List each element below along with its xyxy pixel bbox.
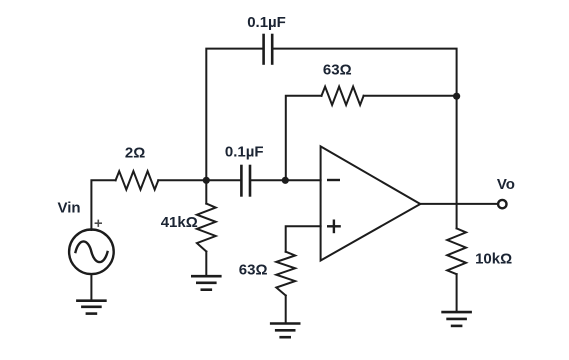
node junction dot feedback/output xyxy=(453,93,460,100)
op-amp triangle xyxy=(321,146,421,260)
wire top feedback loop (left vertical + horizontals to top cap) xyxy=(206,49,262,181)
terminal Vo (open circle) xyxy=(498,200,506,208)
resistor 2ohm zigzag xyxy=(116,171,159,189)
wire op-amp output to Vo terminal xyxy=(420,203,497,205)
op-amp plus input symbol xyxy=(328,221,339,232)
source Vin (AC sine source circle) xyxy=(69,230,114,275)
svg-text:0.1µF: 0.1µF xyxy=(225,144,264,161)
wire top right horizontal + right vertical down to 10k resistor xyxy=(273,49,456,229)
resistor 10kohm vertical xyxy=(447,228,466,274)
wire non-inverting input to 63ohm resistor xyxy=(286,226,321,251)
node junction dot at inverting input xyxy=(282,177,289,184)
capacitor 0.1uF top plates xyxy=(264,35,273,64)
wire Vin bottom to ground xyxy=(90,274,92,300)
wire 63ohm feedback left segment xyxy=(286,96,322,181)
svg-text:0.1µF: 0.1µF xyxy=(247,14,286,31)
svg-text:Vin: Vin xyxy=(58,200,81,217)
ground (below 41kohm) xyxy=(192,276,220,290)
wire mid capacitor to op-amp inverting input xyxy=(251,179,320,181)
polarity plus mark at Vin xyxy=(95,220,101,226)
svg-text:63Ω: 63Ω xyxy=(239,262,268,279)
svg-text:Vo: Vo xyxy=(497,176,515,193)
node junction dot at 41k tap xyxy=(203,177,210,184)
resistor 63ohm feedback zigzag xyxy=(322,87,364,105)
resistor 41kohm vertical xyxy=(197,180,216,275)
svg-text:63Ω: 63Ω xyxy=(323,62,352,79)
ground (below 63ohm) xyxy=(271,324,299,338)
svg-text:2Ω: 2Ω xyxy=(125,144,145,161)
resistor 63ohm to ground (vertical) xyxy=(276,252,295,296)
wire 63ohm resistor to ground xyxy=(285,296,287,323)
wire 2ohm to mid capacitor xyxy=(158,179,240,181)
wire 10kohm to ground xyxy=(456,274,458,311)
wire 63ohm feedback right segment xyxy=(364,95,457,97)
op-amp minus input symbol xyxy=(328,179,339,181)
capacitor 0.1uF mid plates xyxy=(241,166,250,195)
ground (below Vin) xyxy=(77,301,105,314)
svg-text:41kΩ: 41kΩ xyxy=(161,214,198,231)
wire Vin to 2ohm resistor xyxy=(91,180,115,230)
svg-text:10kΩ: 10kΩ xyxy=(475,250,512,267)
ground (below 10kohm) xyxy=(443,312,471,326)
sine wave inside Vin xyxy=(76,241,108,262)
